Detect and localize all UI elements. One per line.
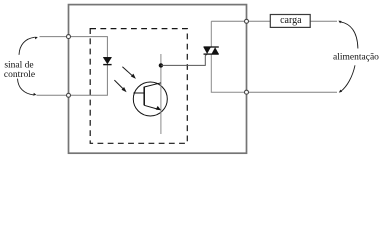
left brace arc bottom with arrowhead [18,79,34,95]
left brace arc top with arrowhead [19,37,35,55]
wire: carga box to right arc end [310,20,337,22]
wire: bottom right to arc end [246,91,337,93]
terminal circle top-right [245,19,249,23]
phototransistor Q1 circle [133,82,167,116]
Q1 base stub [133,92,144,94]
terminal circle bottom-right [245,90,249,94]
wire: LED cathode down and left to bottom terminal [70,65,107,95]
right brace arc top with arrowhead [341,22,358,49]
Q1 emitter diagonal with arrow [144,105,158,109]
wire: top-left stub from arrow to terminal [40,36,67,38]
outer solid rectangle [69,5,247,154]
carga load box [270,15,310,28]
triac main lead (top) [210,21,212,47]
dashed optocoupler box [90,29,187,144]
light arrow 1 [122,67,134,78]
Q1 collector diagonal [144,83,161,87]
terminal circle bottom-left [67,93,71,97]
svg-text:controle: controle [4,70,35,80]
triac main lead (bottom) [211,54,246,92]
terminal circle top-left [67,35,71,39]
Q1 collector/emitter vertical lead [160,54,162,134]
wire: top terminal to LED anode corner [70,37,107,58]
gate wire from dot to triac [161,54,207,65]
right brace arc bottom with arrowhead [341,65,355,91]
light arrow 2 [114,80,124,90]
Q1 base bar [143,87,145,106]
svg-text:alimentação: alimentação [333,53,379,63]
wire: bottom-left stub from arrow to terminal [37,94,67,96]
junction dot on collector lead [159,63,163,67]
wire: triac top to carga box [211,20,270,22]
triac TR1 triangles and bars [204,47,211,54]
svg-text:carga: carga [280,15,302,26]
LED D1 (triangle + cathode bar) [103,57,111,64]
